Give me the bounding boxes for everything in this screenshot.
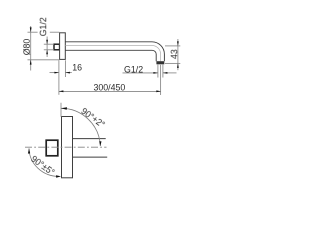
- svg-text:G1/2: G1/2: [38, 17, 48, 36]
- thread block at arm outlet: [156, 61, 164, 64]
- wall flange rect (top view): [60, 33, 66, 60]
- svg-text:16: 16: [72, 63, 82, 73]
- arm tube straight section: [65, 42, 164, 61]
- dimension 16 (flange depth): [50, 60, 72, 95]
- angle arc 90°±5°: [29, 148, 60, 176]
- centerline: [25, 146, 107, 148]
- wall flange rect (bottom view): [62, 117, 73, 178]
- svg-text:G1/2: G1/2: [124, 64, 143, 74]
- tube highlight line: [65, 46, 160, 62]
- dimension 43 (outlet drop): [165, 39, 180, 70]
- angle arc 90°+2°: [61, 108, 100, 146]
- svg-text:43: 43: [169, 49, 179, 59]
- vertical extension above flange: [60, 103, 62, 117]
- arm tube lines (bottom view): [72, 138, 106, 140]
- svg-text:300/450: 300/450: [93, 83, 125, 93]
- dimension G1/2 (outlet thread): [123, 65, 177, 78]
- wall nipple square (top view): [54, 44, 60, 50]
- dimension Ø80: [28, 26, 60, 71]
- svg-text:Ø80: Ø80: [22, 39, 32, 56]
- dimension G1/2 (wall thread, top view): [44, 37, 54, 58]
- dimension 300/450 (arm length): [59, 65, 161, 95]
- wall nipple square (bottom view): [46, 140, 58, 156]
